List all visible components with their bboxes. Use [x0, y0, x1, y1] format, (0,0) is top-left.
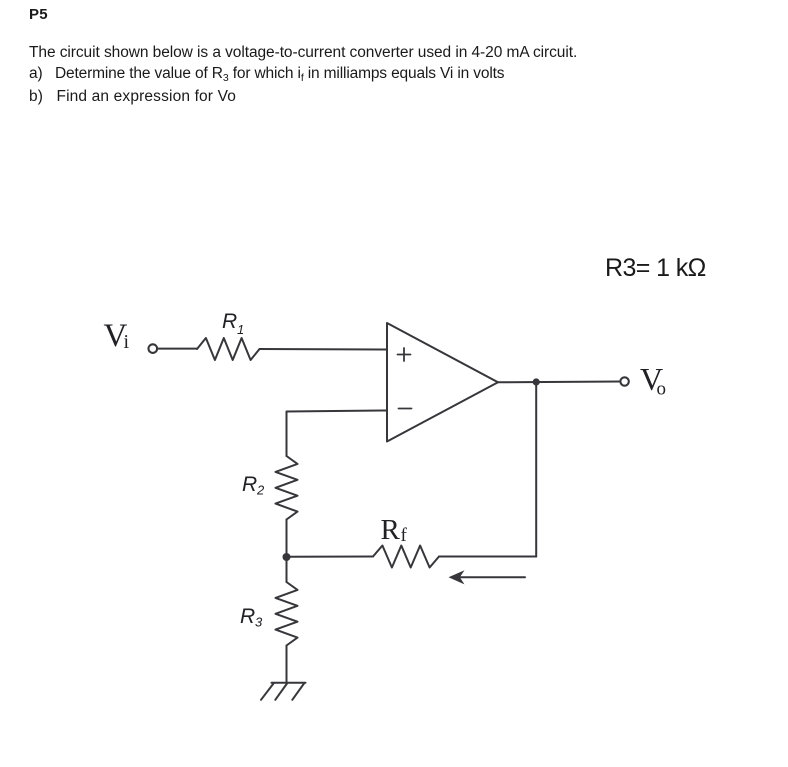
node Vo output terminal: [620, 377, 628, 385]
svg-text:i: i: [124, 331, 130, 353]
wire node A to R3: [286, 557, 288, 582]
problem statement paragraph: [29, 42, 577, 107]
svg-text:R: R: [381, 514, 401, 546]
label Vi: [104, 318, 130, 354]
op-amp minus pin marker: [399, 408, 412, 410]
wire op-amp output to Vo terminal: [498, 381, 620, 384]
svg-text:1: 1: [237, 322, 244, 337]
heading P5: [29, 6, 48, 23]
resistor R3: [276, 582, 298, 646]
node A junction dot: [283, 553, 291, 561]
op-amp plus pin marker: [398, 348, 411, 361]
svg-text:3: 3: [255, 615, 263, 630]
op-amp U1: [387, 323, 498, 442]
wire op-amp minus input down to R2: [287, 411, 388, 457]
wire feedback vertical up to output: [535, 382, 537, 557]
svg-text:R: R: [240, 605, 255, 628]
svg-text:o: o: [657, 379, 667, 400]
resistor R1: [197, 338, 260, 360]
wire Vi terminal to R1: [157, 348, 197, 350]
wire node A to Rf: [287, 556, 374, 558]
wire Rf to feedback branch: [439, 556, 536, 558]
svg-text:2: 2: [256, 483, 265, 498]
resistor R2: [276, 456, 298, 520]
svg-text:R: R: [222, 310, 237, 333]
node Vi input terminal: [149, 344, 158, 353]
svg-text:R: R: [242, 473, 257, 496]
wire R3 to ground: [286, 646, 288, 683]
ground: [261, 683, 306, 700]
wire R1 to op-amp plus input: [260, 348, 388, 351]
label R2: [242, 473, 265, 498]
label Rf: [381, 514, 408, 546]
label R1: [222, 310, 244, 337]
label Vo: [640, 361, 666, 400]
wire R2 to node A: [286, 520, 288, 558]
resistor Rf: [373, 546, 439, 568]
label R3: [240, 605, 263, 630]
annotation R3= 1 kOhm: [605, 254, 706, 283]
current arrow if: [449, 570, 526, 584]
node output junction dot: [533, 378, 540, 385]
svg-text:f: f: [401, 525, 408, 546]
